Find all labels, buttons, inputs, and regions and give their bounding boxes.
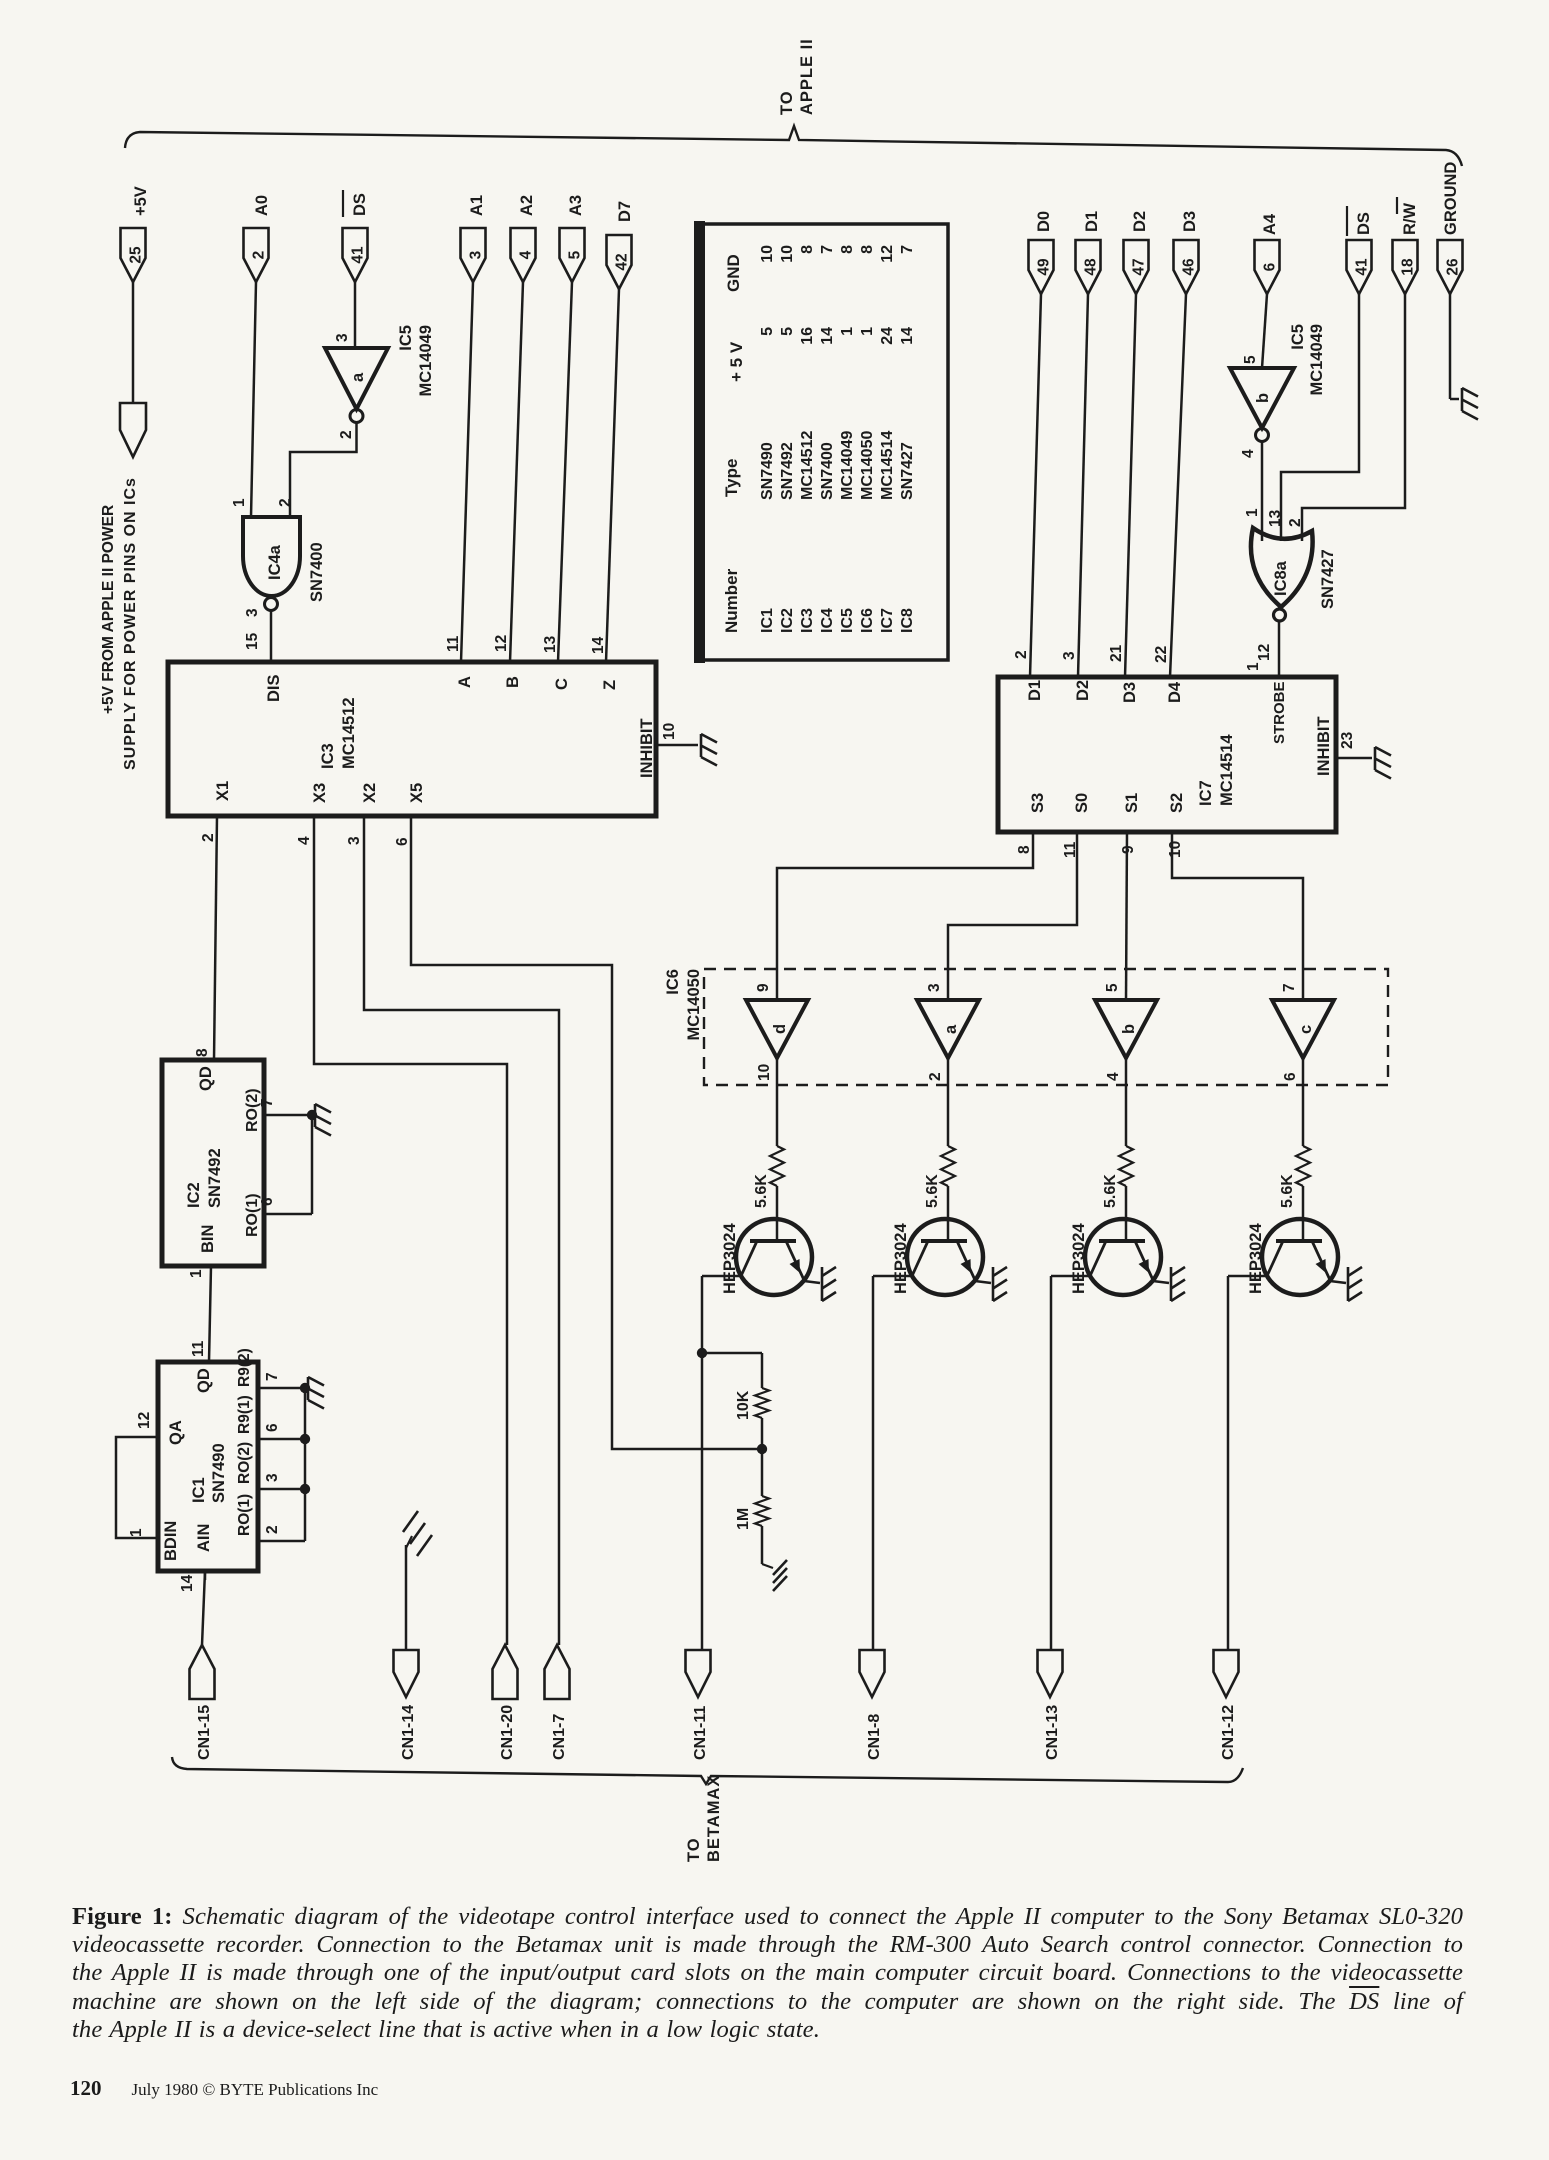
svg-text:R9(2): R9(2) — [236, 1348, 253, 1387]
svg-text:1: 1 — [188, 1269, 205, 1278]
svg-text:1: 1 — [231, 498, 248, 507]
svg-text:7: 7 — [1281, 983, 1298, 992]
svg-text:3: 3 — [1061, 651, 1078, 660]
svg-text:1M: 1M — [735, 1508, 752, 1530]
svg-text:2: 2 — [1013, 650, 1030, 659]
svg-text:GROUND: GROUND — [1442, 162, 1460, 235]
svg-text:5.6K: 5.6K — [924, 1174, 941, 1208]
svg-text:8: 8 — [839, 245, 856, 254]
svg-text:SN7490: SN7490 — [210, 1443, 228, 1503]
svg-text:SN7400: SN7400 — [308, 542, 326, 602]
svg-text:INHIBIT: INHIBIT — [1315, 716, 1333, 776]
svg-text:25: 25 — [128, 246, 145, 264]
svg-text:12: 12 — [136, 1412, 153, 1429]
svg-text:S1: S1 — [1123, 793, 1141, 813]
svg-text:Number: Number — [722, 568, 741, 633]
svg-text:2: 2 — [927, 1072, 944, 1081]
svg-text:BDIN: BDIN — [162, 1521, 180, 1561]
svg-text:SN7492: SN7492 — [206, 1148, 224, 1208]
svg-text:b: b — [1254, 393, 1272, 403]
svg-text:D2: D2 — [1074, 680, 1092, 701]
svg-text:2: 2 — [251, 251, 268, 260]
svg-text:12: 12 — [493, 635, 510, 652]
svg-text:MC14050: MC14050 — [859, 431, 876, 500]
svg-text:X1: X1 — [214, 781, 232, 801]
svg-text:IC5: IC5 — [397, 325, 415, 351]
svg-text:3: 3 — [468, 250, 485, 259]
svg-text:48: 48 — [1083, 258, 1100, 276]
svg-text:BETAMAX: BETAMAX — [705, 1775, 723, 1862]
svg-text:1: 1 — [839, 327, 856, 336]
svg-text:4: 4 — [1240, 449, 1257, 458]
svg-text:SN7427: SN7427 — [899, 442, 916, 500]
svg-text:S0: S0 — [1073, 793, 1091, 813]
svg-text:DS: DS — [1355, 212, 1373, 235]
svg-text:IC4: IC4 — [819, 608, 836, 633]
svg-text:HEP3024: HEP3024 — [721, 1223, 739, 1294]
svg-text:A: A — [456, 676, 474, 688]
svg-text:IC1: IC1 — [190, 1477, 208, 1503]
svg-text:5.6K: 5.6K — [1279, 1174, 1296, 1208]
svg-text:5.6K: 5.6K — [1102, 1174, 1119, 1208]
svg-text:A3: A3 — [567, 195, 585, 216]
svg-text:3: 3 — [334, 333, 351, 342]
svg-text:D1: D1 — [1083, 211, 1101, 232]
svg-text:INHIBIT: INHIBIT — [638, 718, 656, 778]
svg-text:CN1-20: CN1-20 — [499, 1705, 516, 1760]
svg-text:9: 9 — [1120, 845, 1137, 854]
svg-text:QD: QD — [195, 1368, 213, 1393]
svg-text:HEP3024: HEP3024 — [892, 1223, 910, 1294]
svg-text:STROBE: STROBE — [1271, 681, 1288, 744]
svg-text:14: 14 — [819, 327, 836, 345]
svg-text:22: 22 — [1153, 646, 1170, 663]
svg-text:IC7: IC7 — [879, 608, 896, 633]
svg-text:c: c — [1297, 1025, 1315, 1034]
svg-text:IC5: IC5 — [839, 608, 856, 633]
svg-text:11: 11 — [445, 635, 462, 652]
svg-text:8: 8 — [1016, 845, 1033, 854]
svg-text:R/W: R/W — [1401, 203, 1419, 236]
svg-text:QD: QD — [197, 1066, 215, 1091]
svg-text:3: 3 — [264, 1473, 281, 1482]
svg-text:7: 7 — [819, 245, 836, 254]
svg-text:R9(1): R9(1) — [236, 1395, 253, 1434]
svg-text:TO: TO — [778, 90, 796, 115]
svg-text:CN1-11: CN1-11 — [692, 1706, 709, 1760]
svg-text:47: 47 — [1131, 258, 1148, 275]
svg-text:HEP3024: HEP3024 — [1070, 1223, 1088, 1294]
svg-text:X2: X2 — [361, 783, 379, 803]
svg-text:5: 5 — [779, 327, 796, 336]
svg-text:CN1-14: CN1-14 — [400, 1705, 417, 1760]
svg-text:15: 15 — [244, 632, 261, 650]
svg-text:CN1-13: CN1-13 — [1044, 1705, 1061, 1760]
svg-text:2: 2 — [338, 430, 355, 439]
svg-text:IC2: IC2 — [185, 1182, 203, 1208]
svg-text:RO(2): RO(2) — [244, 1088, 261, 1132]
svg-text:8: 8 — [799, 245, 816, 254]
svg-text:1: 1 — [1244, 508, 1261, 517]
svg-text:23: 23 — [1339, 731, 1356, 749]
svg-text:CN1-12: CN1-12 — [1220, 1705, 1237, 1760]
svg-text:41: 41 — [1354, 258, 1371, 276]
svg-text:SN7427: SN7427 — [1319, 549, 1337, 609]
svg-text:A1: A1 — [468, 195, 486, 216]
svg-text:IC5: IC5 — [1289, 324, 1307, 350]
svg-text:26: 26 — [1445, 258, 1462, 276]
svg-text:10: 10 — [1167, 841, 1184, 858]
svg-text:7: 7 — [264, 1372, 281, 1381]
svg-text:5.6K: 5.6K — [753, 1174, 770, 1208]
svg-text:D3: D3 — [1181, 211, 1199, 232]
svg-text:C: C — [553, 678, 571, 690]
svg-text:8: 8 — [859, 245, 876, 254]
svg-text:X3: X3 — [311, 783, 329, 803]
svg-text:13: 13 — [542, 635, 559, 653]
svg-text:A4: A4 — [1261, 213, 1279, 235]
svg-text:CN1-8: CN1-8 — [866, 1714, 883, 1760]
svg-text:CN1-7: CN1-7 — [551, 1714, 568, 1760]
svg-text:16: 16 — [799, 327, 816, 345]
svg-text:CN1-15: CN1-15 — [196, 1705, 213, 1760]
svg-text:DIS: DIS — [265, 674, 283, 702]
svg-text:2: 2 — [1287, 518, 1304, 527]
svg-text:DS: DS — [351, 193, 369, 216]
svg-text:RO(1): RO(1) — [236, 1494, 253, 1536]
svg-text:21: 21 — [1108, 644, 1125, 662]
svg-text:42: 42 — [614, 253, 631, 270]
svg-text:SN7492: SN7492 — [779, 442, 796, 500]
svg-text:5: 5 — [1242, 355, 1259, 364]
svg-text:X5: X5 — [408, 783, 426, 803]
svg-text:b: b — [1120, 1024, 1138, 1034]
svg-text:Type: Type — [722, 459, 741, 497]
svg-text:10: 10 — [661, 723, 678, 740]
svg-text:MC14514: MC14514 — [1218, 734, 1236, 806]
svg-text:S3: S3 — [1029, 793, 1047, 813]
svg-text:a: a — [942, 1024, 960, 1034]
svg-text:+5V: +5V — [132, 186, 150, 216]
svg-text:A2: A2 — [518, 195, 536, 216]
svg-text:10: 10 — [759, 245, 776, 263]
svg-text:2: 2 — [277, 498, 294, 507]
svg-text:10: 10 — [756, 1064, 773, 1081]
svg-text:41: 41 — [350, 246, 367, 264]
svg-text:D0: D0 — [1035, 211, 1053, 232]
svg-text:IC4a: IC4a — [266, 544, 284, 580]
svg-text:D4: D4 — [1166, 681, 1184, 703]
svg-text:49: 49 — [1036, 258, 1053, 276]
svg-text:Z: Z — [601, 680, 619, 690]
svg-text:+ 5 V: + 5 V — [727, 341, 746, 382]
svg-text:IC3: IC3 — [799, 608, 816, 633]
svg-text:12: 12 — [1256, 644, 1273, 661]
svg-text:6: 6 — [394, 837, 411, 846]
svg-text:MC14050: MC14050 — [685, 969, 703, 1041]
svg-text:D1: D1 — [1026, 680, 1044, 701]
svg-text:14: 14 — [899, 327, 916, 345]
svg-text:IC7: IC7 — [1197, 780, 1215, 806]
svg-text:6: 6 — [259, 1197, 276, 1206]
svg-text:1: 1 — [859, 327, 876, 336]
svg-text:APPLE II: APPLE II — [798, 38, 816, 115]
svg-text:12: 12 — [879, 245, 896, 263]
svg-text:MC14049: MC14049 — [417, 325, 435, 397]
svg-text:10K: 10K — [735, 1390, 752, 1420]
svg-text:IC8a: IC8a — [1272, 560, 1290, 596]
svg-text:B: B — [504, 676, 522, 688]
svg-text:MC14049: MC14049 — [1308, 324, 1326, 396]
svg-text:8: 8 — [194, 1048, 211, 1057]
svg-text:4: 4 — [518, 250, 535, 259]
svg-text:d: d — [771, 1024, 789, 1034]
svg-text:3: 3 — [244, 608, 261, 617]
svg-text:a: a — [349, 372, 367, 382]
svg-text:5: 5 — [1104, 983, 1121, 992]
svg-text:9: 9 — [755, 983, 772, 992]
svg-text:S2: S2 — [1168, 793, 1186, 813]
svg-text:IC6: IC6 — [859, 608, 876, 633]
svg-text:5: 5 — [759, 327, 776, 336]
svg-text:24: 24 — [879, 327, 896, 345]
svg-text:1: 1 — [1245, 662, 1262, 671]
svg-text:D7: D7 — [616, 201, 634, 222]
svg-text:IC3: IC3 — [319, 743, 337, 769]
svg-text:TO: TO — [685, 1837, 703, 1862]
svg-text:IC6: IC6 — [664, 969, 682, 995]
svg-text:7: 7 — [899, 245, 916, 254]
svg-text:RO(2): RO(2) — [236, 1442, 253, 1484]
svg-text:14: 14 — [179, 1574, 196, 1592]
svg-text:GND: GND — [724, 254, 743, 292]
svg-text:11: 11 — [190, 1340, 207, 1357]
svg-text:MC14512: MC14512 — [340, 697, 358, 769]
svg-text:6: 6 — [264, 1423, 281, 1432]
svg-text:HEP3024: HEP3024 — [1247, 1223, 1265, 1294]
svg-text:46: 46 — [1181, 258, 1198, 276]
svg-text:IC1: IC1 — [759, 608, 776, 633]
svg-text:3: 3 — [346, 836, 363, 845]
svg-text:A0: A0 — [253, 195, 271, 216]
svg-text:AIN: AIN — [195, 1524, 213, 1552]
svg-text:10: 10 — [779, 245, 796, 263]
svg-text:2: 2 — [264, 1525, 281, 1534]
svg-text:BIN: BIN — [199, 1225, 217, 1253]
svg-text:MC14049: MC14049 — [839, 431, 856, 500]
svg-text:MC14514: MC14514 — [879, 431, 896, 500]
svg-text:IC8: IC8 — [899, 608, 916, 633]
svg-text:5: 5 — [567, 250, 584, 259]
svg-text:+5V FROM APPLE II POWER: +5V FROM APPLE II POWER — [100, 505, 117, 714]
svg-text:D3: D3 — [1121, 682, 1139, 703]
svg-text:MC14512: MC14512 — [799, 431, 816, 500]
svg-text:13: 13 — [1267, 509, 1284, 527]
svg-text:6: 6 — [1282, 1072, 1299, 1081]
svg-text:3: 3 — [926, 983, 943, 992]
svg-text:SN7490: SN7490 — [759, 442, 776, 500]
svg-text:4: 4 — [1105, 1072, 1122, 1081]
svg-text:SUPPLY FOR POWER PINS ON ICs: SUPPLY FOR POWER PINS ON ICs — [122, 477, 139, 770]
svg-text:7: 7 — [259, 1098, 276, 1107]
svg-text:D2: D2 — [1131, 211, 1149, 232]
svg-text:4: 4 — [296, 836, 313, 845]
svg-text:6: 6 — [1262, 262, 1279, 271]
svg-text:QA: QA — [167, 1420, 185, 1445]
svg-text:18: 18 — [1400, 258, 1417, 276]
svg-text:2: 2 — [200, 833, 217, 842]
svg-text:1: 1 — [128, 1528, 145, 1537]
svg-text:14: 14 — [590, 636, 607, 654]
svg-text:SN7400: SN7400 — [819, 442, 836, 500]
svg-text:IC2: IC2 — [779, 608, 796, 633]
